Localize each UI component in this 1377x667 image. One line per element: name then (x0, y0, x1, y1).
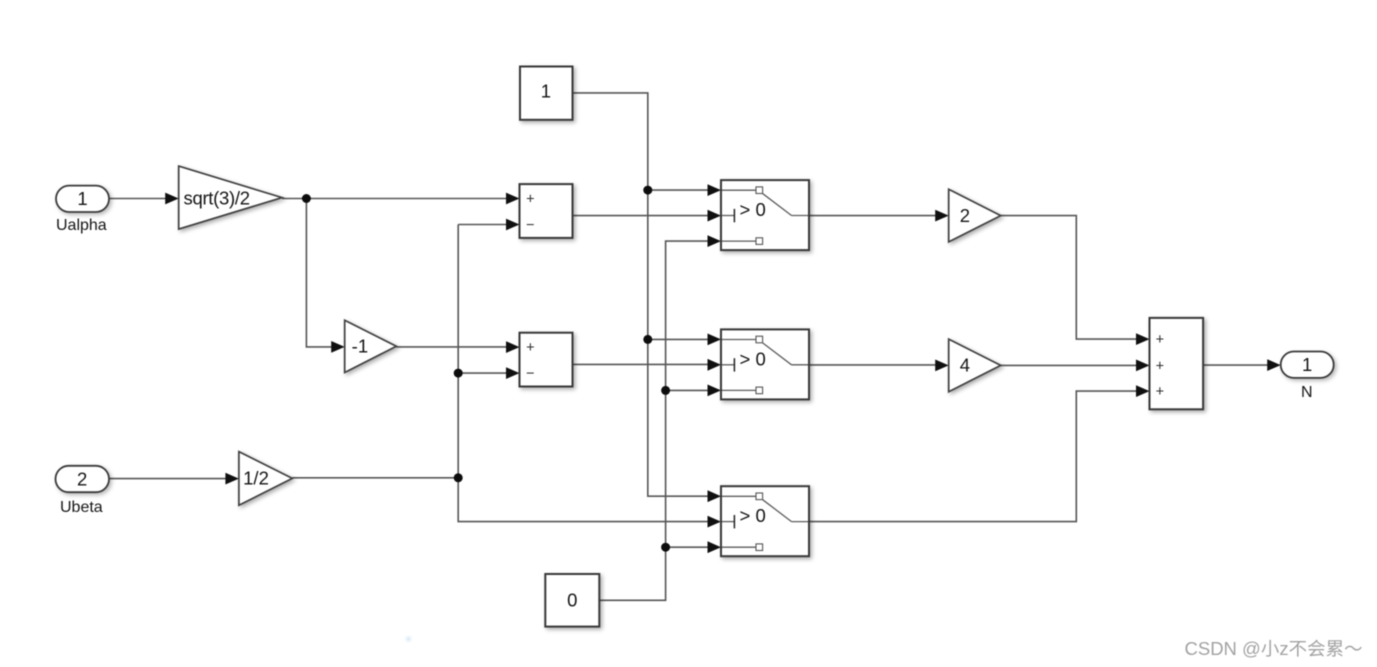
arrowhead into gain 2 (935, 210, 949, 222)
wire gain 4 output to Sum3 input 2 (1001, 364, 1137, 366)
svg-text:−: − (526, 366, 534, 382)
wire Switch3 output to Sum3 input 3 (808, 391, 1137, 521)
wire Ubeta/2 vertical bus to Switch3 control (458, 225, 708, 522)
arrowhead Sum2 plus input (506, 341, 520, 353)
constant block value 0 (545, 574, 599, 627)
stray blue dot artifact (406, 637, 411, 642)
svg-text:+: + (526, 191, 534, 207)
gain block 1/2 (239, 452, 292, 506)
arrowhead into gain 4 (935, 360, 949, 372)
wire Constant0 bus to Switch3 bottom input (666, 546, 709, 548)
svg-text:2: 2 (77, 468, 87, 489)
wire -1 gain output to Sum2 plus input (396, 346, 506, 348)
wire Sum1 output to Switch1 control (573, 215, 709, 217)
wire Ubeta to 1/2 gain (109, 478, 226, 480)
arrowhead Switch1 control input (708, 210, 722, 222)
arrowhead Sum1 plus input (506, 193, 520, 205)
arrowhead into sqrt(3)/2 gain (165, 193, 179, 205)
wire to Sum1 minus input (458, 224, 506, 226)
wire Constant0 bus to Switch2 bottom input (666, 389, 709, 391)
wire Constant0 output bus to Switch1 bottom input (599, 241, 708, 600)
arrowhead Switch3 input 3 (708, 541, 722, 553)
gain block 4 (949, 339, 1001, 392)
junction node after sqrt(3)/2 gain (302, 194, 311, 203)
svg-text:Ubeta: Ubeta (60, 499, 103, 516)
watermark CSDN @xiao z bu hui lei (1185, 638, 1362, 659)
wire Sum2 output to Switch2 control (573, 363, 709, 365)
wire Constant1 bus to Switch1 top input (648, 189, 708, 191)
junction node Constant1 bus to Switch1 (643, 186, 652, 195)
arrowhead into 1/2 gain (225, 473, 239, 485)
arrowhead Sum1 minus input (506, 219, 520, 231)
arrowhead Switch2 input 3 (708, 385, 722, 397)
svg-text:1: 1 (77, 188, 87, 209)
gain block -1 (345, 320, 397, 372)
sum block Sum2 (+ -) (520, 333, 573, 387)
wire 1/2 gain output to junction (292, 477, 458, 479)
wire gain 2 output to Sum3 input 1 (1001, 216, 1137, 340)
arrowhead Switch3 control input (708, 516, 722, 528)
svg-text:+: + (1156, 332, 1164, 348)
wire to Sum2 minus input (458, 372, 506, 374)
switch block Switch3 (721, 486, 809, 556)
svg-text:−: − (526, 217, 534, 233)
svg-text:-1: -1 (352, 336, 368, 357)
svg-text:4: 4 (960, 355, 970, 376)
arrowhead Switch2 control input (708, 359, 722, 371)
sum block Sum3 (+ + +) (1150, 318, 1204, 409)
svg-text:+: + (526, 340, 534, 356)
switch block Switch2 (721, 329, 809, 399)
arrowhead Switch1 input 1 (708, 184, 722, 196)
svg-text:> 0: > 0 (740, 348, 766, 369)
gain block sqrt(3)/2 (179, 166, 282, 229)
svg-text:0: 0 (567, 590, 577, 611)
wire Constant1 output bus to Switch3 top input (573, 93, 709, 496)
arrowhead Sum3 input 1 (1136, 333, 1150, 345)
svg-text:> 0: > 0 (740, 199, 766, 220)
arrowhead into -1 gain (331, 341, 345, 353)
wire branch down to -1 gain (306, 199, 331, 347)
arrowhead Sum2 minus input (506, 367, 520, 379)
svg-text:Ualpha: Ualpha (56, 217, 107, 234)
gain block 2 (949, 189, 1001, 242)
junction node Constant0 bus to Switch3 (661, 543, 670, 552)
svg-text:2: 2 (960, 205, 970, 226)
wire Switch1 output to gain 2 (809, 215, 936, 217)
svg-text:+: + (1156, 359, 1164, 375)
wire Switch2 output to gain 4 (809, 364, 936, 366)
junction node Constant0 bus to Switch2 (661, 386, 670, 395)
svg-text:1/2: 1/2 (243, 468, 269, 489)
junction node Ubeta/2 to Sum2 (454, 369, 463, 378)
arrowhead Sum3 input 2 (1136, 360, 1150, 372)
switch block Switch1 (721, 180, 809, 250)
wire Ualpha to sqrt(3)/2 gain (109, 198, 166, 200)
svg-text:1: 1 (1302, 354, 1312, 375)
inport 1 Ualpha (56, 186, 109, 212)
svg-text:CSDN @: CSDN @ (1185, 638, 1261, 659)
arrowhead Switch3 input 1 (708, 490, 722, 502)
svg-text:N: N (1301, 384, 1313, 401)
arrowhead Switch1 input 3 (708, 235, 722, 247)
svg-text:+: + (1156, 384, 1164, 400)
arrowhead Sum3 input 3 (1136, 385, 1150, 397)
sum block Sum1 (+ -) (520, 184, 573, 238)
outport 1 N (1281, 352, 1334, 378)
wire sqrt(3)/2 output to Sum1 plus input (282, 198, 507, 200)
svg-text:sqrt(3)/2: sqrt(3)/2 (184, 188, 250, 209)
wire Sum3 output to outport N (1203, 364, 1268, 366)
svg-text:> 0: > 0 (740, 505, 766, 526)
svg-text:z: z (1279, 638, 1288, 659)
arrowhead Switch2 input 1 (708, 334, 722, 346)
svg-text:1: 1 (541, 80, 551, 101)
constant block value 1 (520, 67, 573, 120)
inport 2 Ubeta (56, 466, 110, 492)
junction node Ubeta/2 at 1/2 gain output (454, 473, 463, 482)
wire Constant1 bus to Switch2 top input (648, 338, 708, 340)
junction node Constant1 bus to Switch2 (643, 335, 652, 344)
arrowhead into outport N (1267, 359, 1281, 371)
